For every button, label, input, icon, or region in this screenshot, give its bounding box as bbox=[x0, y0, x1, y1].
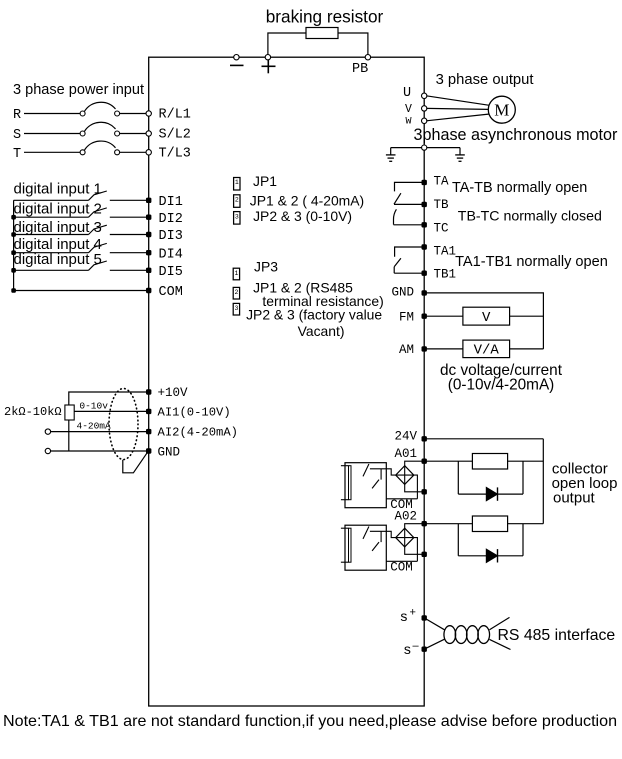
svg-text:DI5: DI5 bbox=[159, 265, 183, 280]
optocoupler U2 left pins bbox=[341, 527, 349, 529]
contact TA-TB blade bbox=[394, 193, 401, 204]
svg-text:PB: PB bbox=[352, 62, 368, 77]
junction left bus DI2 bbox=[11, 215, 16, 220]
svg-text:R/L1: R/L1 bbox=[159, 108, 191, 123]
optocoupler U1 transistor strokes bbox=[363, 464, 369, 476]
switch DI5 blade bbox=[89, 261, 107, 270]
switch DI1 blade bbox=[89, 191, 107, 200]
svg-text:JP1: JP1 bbox=[253, 173, 277, 189]
svg-text:AI1(0-10V): AI1(0-10V) bbox=[158, 405, 231, 419]
junction 24V bbox=[422, 436, 427, 441]
wire W to motor bbox=[426, 114, 488, 121]
wire TA lead bbox=[395, 182, 425, 191]
wire V to motor bbox=[426, 108, 488, 109]
diode D2 bbox=[486, 549, 497, 562]
wire DI1 right lead bbox=[110, 199, 149, 201]
svg-text:output: output bbox=[553, 490, 596, 507]
resistor braking (RB) bbox=[306, 28, 338, 39]
terminal +10V bbox=[146, 389, 151, 394]
wire DI2 left lead bbox=[14, 216, 89, 218]
svg-text:TB1: TB1 bbox=[434, 267, 457, 281]
svg-text:TB: TB bbox=[434, 198, 450, 212]
terminal V bbox=[422, 106, 427, 111]
wire COM lead bbox=[14, 290, 149, 292]
ground symbol left bbox=[390, 148, 392, 155]
wire potentiometer bottom to GND bbox=[68, 420, 70, 451]
wire A01 left stub bbox=[457, 461, 459, 494]
wire U1 opto out2 bbox=[386, 498, 417, 500]
junction TB bbox=[422, 202, 427, 207]
svg-text:T/L3: T/L3 bbox=[159, 147, 191, 162]
junction S+ bbox=[422, 615, 427, 620]
junction GND right bbox=[422, 290, 427, 295]
wire A01 network bbox=[424, 460, 543, 462]
svg-text:2: 2 bbox=[235, 197, 239, 204]
svg-text:s: s bbox=[404, 641, 411, 657]
meter V box bbox=[463, 307, 510, 325]
svg-text:M: M bbox=[494, 101, 509, 120]
svg-text:–: – bbox=[413, 640, 420, 652]
svg-text:3phase asynchronous motor: 3phase asynchronous motor bbox=[414, 126, 618, 144]
terminal AI1 bbox=[146, 409, 151, 414]
wire A01 diode branch bbox=[458, 493, 523, 495]
bridge rectifier U2 cross bbox=[404, 528, 406, 547]
svg-text:+10V: +10V bbox=[158, 386, 189, 400]
wire +10V to potentiometer top bbox=[69, 392, 149, 405]
ground symbol right bbox=[459, 148, 461, 155]
wire bridge U1 bottom to COM bbox=[405, 484, 425, 491]
resistor A02 load bbox=[472, 516, 507, 532]
resistor A01 load bbox=[472, 454, 507, 470]
svg-text:JP1 & 2 ( 4-20mA): JP1 & 2 ( 4-20mA) bbox=[250, 192, 364, 208]
wire DI3 right lead bbox=[110, 234, 149, 236]
svg-text:U: U bbox=[403, 86, 411, 101]
wire U to motor bbox=[426, 96, 488, 105]
wire A02 left stub bbox=[457, 524, 459, 556]
svg-text:digital input 5: digital input 5 bbox=[14, 251, 102, 268]
terminal DI5 bbox=[146, 268, 151, 273]
svg-text:2: 2 bbox=[234, 289, 238, 296]
meter V/A box bbox=[463, 340, 510, 358]
wire voltmeter to bus bbox=[510, 315, 544, 317]
wire TB1 lead bbox=[394, 272, 424, 274]
minus symbol bbox=[230, 64, 244, 66]
potentiometer RP bbox=[65, 405, 74, 420]
wire S- to coil bbox=[424, 639, 444, 649]
svg-text:DI2: DI2 bbox=[159, 212, 183, 227]
terminal external AI2 circle bbox=[45, 429, 50, 434]
wire S+ to coil bbox=[424, 618, 444, 630]
wire AI1 to potentiometer wiper bbox=[74, 410, 149, 412]
svg-text:T: T bbox=[13, 147, 21, 162]
svg-text:TA1: TA1 bbox=[434, 245, 457, 259]
svg-text:0-10v: 0-10v bbox=[79, 401, 108, 412]
junction TA1 bbox=[422, 244, 427, 249]
breaker R contact circles bbox=[80, 111, 85, 116]
svg-text:DI1: DI1 bbox=[159, 195, 183, 210]
svg-text:24V: 24V bbox=[394, 429, 417, 443]
wire TA1-TB1 blade stem bbox=[393, 267, 395, 273]
terminal R/L1 bbox=[146, 111, 151, 116]
wire U2 opto out1 to bridge bbox=[386, 531, 395, 537]
junction TC bbox=[422, 222, 427, 227]
optocoupler U1 box bbox=[345, 463, 386, 508]
inverter main box outline bbox=[149, 57, 425, 706]
svg-text:TA-TB normally open: TA-TB normally open bbox=[452, 180, 587, 196]
optocoupler U2 transistor strokes bbox=[363, 527, 369, 539]
optocoupler U2 box bbox=[345, 525, 386, 570]
jumper JP3 pin 3 bbox=[233, 303, 239, 315]
switch DI2 blade bbox=[89, 208, 107, 217]
wire V/A meter to bus bbox=[510, 348, 544, 350]
svg-text:1: 1 bbox=[234, 270, 238, 277]
terminal AI2 bbox=[146, 429, 151, 434]
terminal PB bbox=[365, 55, 370, 60]
svg-text:(0-10v/4-20mA): (0-10v/4-20mA) bbox=[448, 377, 555, 394]
svg-text:A01: A01 bbox=[394, 447, 417, 461]
jumper JP1 pin 2 bbox=[234, 195, 240, 208]
wire DI5 left lead bbox=[14, 269, 89, 271]
svg-text:S: S bbox=[13, 128, 21, 143]
wire bridge U2 top to terminal bbox=[405, 524, 425, 529]
jumper JP1 pin 1 bbox=[234, 178, 240, 191]
terminal + bbox=[265, 55, 270, 60]
junction FM bbox=[422, 314, 427, 319]
svg-text:GND: GND bbox=[391, 286, 414, 300]
svg-text:braking resistor: braking resistor bbox=[266, 7, 384, 27]
wire T lead bbox=[24, 151, 80, 153]
junction A02 bbox=[422, 521, 427, 526]
wire R lead bbox=[24, 113, 80, 115]
wire TA1 lead bbox=[395, 247, 425, 257]
breaker S contact circles bbox=[80, 131, 85, 136]
jumper JP3 pin 1 bbox=[233, 268, 239, 280]
wire DI5 right lead bbox=[110, 269, 149, 271]
optocoupler U2 led bar bbox=[349, 528, 352, 562]
diode D1 bbox=[486, 487, 497, 500]
switch DI3 blade bbox=[89, 225, 107, 234]
bridge rectifier U1 cross bbox=[404, 466, 406, 485]
breaker R arc bbox=[85, 102, 116, 111]
terminal GND left bbox=[146, 448, 151, 453]
junction COM (U1) bbox=[422, 489, 427, 494]
bridge rectifier U2 diamond bbox=[396, 528, 414, 547]
svg-text:3 phase power input: 3 phase power input bbox=[13, 82, 144, 98]
svg-text:JP3: JP3 bbox=[254, 259, 278, 275]
wire digital input left bus bbox=[13, 200, 15, 290]
jumper JP3 pin 2 bbox=[233, 287, 239, 299]
svg-text:W: W bbox=[406, 117, 412, 128]
terminal DI1 bbox=[146, 198, 151, 203]
svg-text:Note:TA1 & TB1 are not standar: Note:TA1 & TB1 are not standard function… bbox=[3, 712, 617, 730]
junction A01 bbox=[422, 459, 427, 464]
wire FM to voltmeter bbox=[424, 315, 463, 317]
junction left bus DI5 bbox=[11, 268, 16, 273]
wire DI2 right lead bbox=[110, 216, 149, 218]
wire S to terminal bbox=[120, 133, 147, 135]
svg-text:TB-TC normally closed: TB-TC normally closed bbox=[458, 209, 602, 225]
svg-text:RS 485 interface: RS 485 interface bbox=[498, 627, 616, 644]
svg-text:GND: GND bbox=[158, 445, 181, 459]
wire DI3 left lead bbox=[14, 234, 89, 236]
svg-text:3: 3 bbox=[235, 213, 239, 220]
svg-text:TC: TC bbox=[434, 221, 449, 235]
svg-text:V: V bbox=[405, 103, 412, 116]
breaker T arc bbox=[85, 141, 116, 150]
terminal COM bbox=[146, 288, 151, 293]
svg-text:DI3: DI3 bbox=[159, 229, 183, 244]
wire shield to GND hook bbox=[123, 452, 148, 473]
svg-text:R: R bbox=[13, 108, 21, 123]
svg-text:s: s bbox=[400, 608, 407, 624]
svg-text:COM: COM bbox=[390, 560, 413, 574]
wire A02 network bbox=[424, 523, 543, 525]
svg-text:Vacant): Vacant) bbox=[298, 323, 345, 339]
svg-text:digital input 2: digital input 2 bbox=[14, 200, 102, 217]
terminal DI2 bbox=[146, 215, 151, 220]
terminal - (minus) bbox=[234, 55, 239, 60]
svg-text:V/A: V/A bbox=[474, 343, 500, 359]
svg-text:S/L2: S/L2 bbox=[159, 128, 191, 143]
wire AI2 lead bbox=[51, 431, 149, 433]
optocoupler U1 left pins bbox=[341, 465, 349, 467]
svg-text:TA: TA bbox=[434, 174, 450, 188]
wire U1 opto out1 to bridge bbox=[386, 469, 395, 475]
svg-text:JP2 & 3 (factory value: JP2 & 3 (factory value bbox=[246, 307, 382, 323]
junction TB1 bbox=[422, 271, 427, 276]
breaker T contact circles bbox=[80, 150, 85, 155]
junction left bus COM bbox=[11, 288, 16, 293]
svg-text:3 phase output: 3 phase output bbox=[436, 72, 534, 88]
wire coil to upper right bbox=[490, 617, 510, 629]
svg-text:4-20mA: 4-20mA bbox=[77, 420, 112, 431]
jumper JP1 pin 3 bbox=[234, 212, 240, 225]
optocoupler U1 led bar bbox=[349, 466, 352, 500]
contact TA1-TB1 blade bbox=[394, 258, 401, 267]
junction AM bbox=[422, 346, 427, 351]
plus symbol bbox=[262, 65, 276, 67]
junction left bus DI4 bbox=[11, 250, 16, 255]
terminal DI4 bbox=[146, 250, 151, 255]
junction COM (U2) bbox=[422, 552, 427, 557]
wire GND to meter bus bbox=[424, 293, 543, 349]
terminal DI3 bbox=[146, 232, 151, 237]
terminal external GND circle bbox=[45, 448, 50, 453]
wire AM to V/A meter bbox=[424, 348, 463, 350]
wire A01 right stub bbox=[522, 461, 524, 494]
svg-text:JP2 & 3 (0-10V): JP2 & 3 (0-10V) bbox=[253, 208, 352, 224]
terminal T/L3 bbox=[146, 150, 151, 155]
wire A02 diode branch bbox=[458, 555, 523, 557]
junction TA bbox=[422, 180, 427, 185]
motor M circle bbox=[488, 96, 515, 123]
wire bridge U1 top to terminal bbox=[405, 461, 425, 466]
svg-text:+: + bbox=[410, 606, 416, 618]
wire S lead bbox=[24, 133, 80, 135]
switch DI4 blade bbox=[89, 243, 107, 252]
breaker S arc bbox=[85, 122, 116, 131]
svg-text:1: 1 bbox=[235, 179, 239, 186]
transformer coil RS485 bbox=[444, 626, 456, 644]
wire TC lead bbox=[394, 224, 425, 226]
svg-text:COM: COM bbox=[159, 285, 183, 300]
junction left bus DI3 bbox=[11, 232, 16, 237]
svg-text:TA1-TB1 normally open: TA1-TB1 normally open bbox=[455, 254, 608, 270]
wire coil to lower right bbox=[490, 639, 511, 649]
svg-text:DI4: DI4 bbox=[159, 247, 183, 262]
terminal earth circle bbox=[422, 145, 427, 150]
svg-text:AI2(4-20mA): AI2(4-20mA) bbox=[158, 426, 238, 440]
contact TB-TC blade bbox=[393, 209, 396, 224]
svg-text:digital input 1: digital input 1 bbox=[14, 180, 102, 197]
wire braking resistor loop bbox=[268, 33, 368, 57]
wire bridge U2 bottom to COM bbox=[405, 547, 425, 554]
wire T to terminal bbox=[120, 151, 147, 153]
wire bridge U1 right to COM bbox=[414, 475, 418, 499]
svg-text:2kΩ-10kΩ: 2kΩ-10kΩ bbox=[4, 405, 62, 419]
wire A02 right stub bbox=[522, 524, 524, 556]
wire TB lead bbox=[394, 203, 424, 205]
bridge rectifier U1 diamond bbox=[396, 466, 414, 485]
shield cable ellipse bbox=[109, 389, 138, 460]
svg-text:3: 3 bbox=[234, 305, 238, 312]
wire R to terminal bbox=[120, 113, 147, 115]
terminal S/L2 bbox=[146, 131, 151, 136]
wire bridge U2 right to COM bbox=[414, 538, 418, 562]
svg-text:V: V bbox=[482, 310, 491, 326]
svg-text:AM: AM bbox=[399, 343, 414, 357]
svg-text:FM: FM bbox=[399, 310, 414, 324]
wire U2 opto out2 bbox=[386, 560, 417, 562]
terminal U bbox=[422, 93, 427, 98]
wire DI4 right lead bbox=[110, 252, 149, 254]
terminal W bbox=[422, 118, 427, 123]
wire earth line bbox=[391, 147, 460, 149]
wire GND lead bbox=[51, 450, 149, 452]
junction S- bbox=[422, 647, 427, 652]
wire 24V to bus bbox=[424, 438, 543, 440]
wire DI1 left lead bbox=[14, 199, 89, 201]
svg-text:A02: A02 bbox=[394, 510, 417, 524]
wire collector bus bbox=[542, 439, 544, 524]
wire DI4 left lead bbox=[14, 252, 89, 254]
